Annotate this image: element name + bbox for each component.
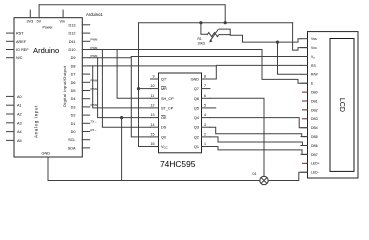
svg-text:LED+: LED+ xyxy=(311,162,320,166)
wire OE to GND rail xyxy=(121,118,123,181)
svg-text:Arduino: Arduino xyxy=(33,46,59,55)
label OE overline xyxy=(161,115,166,117)
svg-text:D12: D12 xyxy=(69,32,76,36)
pin Vss stub xyxy=(301,38,308,40)
svg-text:Vss: Vss xyxy=(311,37,317,41)
pin GND stub xyxy=(47,157,49,181)
pin E stub xyxy=(301,82,308,84)
junction 5V rail corner xyxy=(224,21,227,24)
pin 13 stub xyxy=(151,117,159,119)
wire pot right terminal staircase to LCD Vss xyxy=(220,29,302,42)
lamp D1 cross xyxy=(261,178,267,184)
svg-text:Q7: Q7 xyxy=(194,87,199,91)
pin D13 stub xyxy=(82,24,89,26)
svg-text:5: 5 xyxy=(204,104,206,108)
svg-text:D9: D9 xyxy=(71,56,76,60)
svg-text:Q4: Q4 xyxy=(194,116,199,120)
wire 5V rail top xyxy=(39,5,225,23)
svg-text:10kΩ: 10kΩ xyxy=(198,42,206,46)
svg-text:Q1: Q1 xyxy=(194,145,199,149)
pin A2 stub xyxy=(7,113,15,115)
pin 3 stub xyxy=(202,126,211,128)
svg-text:PWM: PWM xyxy=(91,79,99,83)
label MR overline xyxy=(161,86,166,88)
pin RS stub xyxy=(301,64,308,66)
pin 6 stub xyxy=(202,97,211,99)
pin D5 stub xyxy=(82,90,89,92)
pin A1 stub xyxy=(7,104,15,106)
junction MR xyxy=(137,87,140,90)
pin A5 stub xyxy=(7,139,15,141)
svg-text:Analog Input: Analog Input xyxy=(34,105,39,138)
svg-text:Q5: Q5 xyxy=(194,106,199,110)
pin RW stub xyxy=(301,73,308,75)
svg-text:D3: D3 xyxy=(71,105,76,109)
pin LED- stub xyxy=(301,171,308,173)
LCD U3 body xyxy=(308,32,359,178)
svg-text:D11: D11 xyxy=(69,40,76,44)
svg-text:PWM: PWM xyxy=(91,46,99,50)
wire branch to ST_CP xyxy=(93,66,151,108)
svg-text:D0: D0 xyxy=(71,130,76,134)
labels PWM tags xyxy=(91,38,99,132)
pin SCL stub xyxy=(82,139,89,141)
pin Vin stub xyxy=(62,10,64,18)
pin AREF stub xyxy=(7,40,15,42)
pin 15 stub xyxy=(151,136,159,138)
wire Q2 to DB6 xyxy=(210,137,308,146)
svg-text:14: 14 xyxy=(151,123,155,127)
pin A0 stub xyxy=(7,95,15,97)
svg-text:D6: D6 xyxy=(71,81,76,85)
svg-text:DB3: DB3 xyxy=(311,117,318,121)
svg-text:Q0: Q0 xyxy=(161,135,166,139)
pin DB6 stub xyxy=(301,145,308,147)
resistor R1 wiper arrow xyxy=(210,29,218,41)
svg-text:6: 6 xyxy=(204,94,206,98)
svg-text:13: 13 xyxy=(151,113,155,117)
svg-text:RST: RST xyxy=(16,32,24,36)
svg-text:LCD: LCD xyxy=(338,98,345,112)
pin 5V stub xyxy=(38,5,40,18)
svg-text:CC: CC xyxy=(164,146,168,150)
junction GND Vss xyxy=(276,41,279,44)
pin 14 stub xyxy=(151,126,159,128)
wire Q3 to DB5 xyxy=(210,127,308,136)
svg-text:16: 16 xyxy=(151,142,155,146)
svg-text:A4: A4 xyxy=(17,130,22,134)
junction 5V rail pot xyxy=(199,21,202,24)
svg-text:2: 2 xyxy=(204,133,206,137)
svg-text:1: 1 xyxy=(204,142,206,146)
pin D8 stub xyxy=(82,65,89,67)
pin D1 stub xyxy=(82,122,89,124)
svg-text:7: 7 xyxy=(204,84,206,88)
pin DB4 stub xyxy=(301,127,308,129)
svg-text:Power: Power xyxy=(43,26,54,30)
pin DB0 stub unconnected xyxy=(303,91,308,93)
svg-text:Q2: Q2 xyxy=(194,135,199,139)
pin DB3 stub unconnected xyxy=(303,118,308,120)
pin 9 stub xyxy=(151,78,159,80)
svg-text:RX←: RX← xyxy=(91,128,98,132)
svg-text:DB5: DB5 xyxy=(311,135,318,139)
wire 5V to MR and VCC vertical xyxy=(139,23,151,147)
svg-text:R/W: R/W xyxy=(311,73,318,77)
wire 595 GND pin8 up link and RS line xyxy=(210,65,301,79)
pin D0 stub xyxy=(82,131,89,133)
labels 595 pin numbers xyxy=(151,75,207,147)
pin 2 stub xyxy=(202,136,211,138)
svg-text:PWM: PWM xyxy=(91,54,99,58)
wire D10 to DS xyxy=(90,50,151,128)
pin 5 stub unconnected xyxy=(202,107,216,109)
wire 5V to LCD Vcc xyxy=(293,23,308,50)
wire D9 to Q0 xyxy=(90,57,151,137)
pin 1 stub xyxy=(202,146,211,148)
wire D8 across to RS junction xyxy=(90,65,217,67)
svg-text:A1: A1 xyxy=(17,104,22,108)
svg-text:3: 3 xyxy=(204,123,206,127)
svg-text:RS: RS xyxy=(311,64,316,68)
pin 3V3 stub xyxy=(29,10,31,18)
svg-text:LED-: LED- xyxy=(311,171,319,175)
pin IOREF stub xyxy=(7,49,15,51)
svg-text:PWM: PWM xyxy=(91,38,99,42)
svg-text:Vcc: Vcc xyxy=(311,46,317,50)
pin D2 stub xyxy=(82,114,89,116)
wire MR branch xyxy=(139,88,151,90)
svg-text:Digital Input/Output: Digital Input/Output xyxy=(62,65,67,107)
svg-text:TX→: TX→ xyxy=(91,120,98,124)
svg-text:PWM: PWM xyxy=(91,103,99,107)
wire Vo line xyxy=(131,56,301,58)
wire Q1 to DB7 xyxy=(210,147,308,155)
pin Vo stub xyxy=(301,56,308,58)
pin D3 stub xyxy=(82,106,89,108)
svg-text:11: 11 xyxy=(151,94,155,98)
wire lamp right to LED- xyxy=(268,172,307,180)
svg-text:D13: D13 xyxy=(69,23,76,27)
svg-text:Q3: Q3 xyxy=(194,126,199,130)
pin D4 stub xyxy=(82,98,89,100)
pin 7 stub xyxy=(202,88,211,90)
junction OE GND xyxy=(120,116,123,119)
svg-text:DB7: DB7 xyxy=(311,153,318,157)
resistor R1 zigzag xyxy=(207,33,230,37)
svg-text:SH_CP: SH_CP xyxy=(161,97,174,101)
svg-text:DB0: DB0 xyxy=(311,91,318,95)
svg-text:10: 10 xyxy=(151,84,155,88)
74HC595 U1 body xyxy=(159,73,202,153)
pin A3 stub xyxy=(7,122,15,124)
svg-text:Q7': Q7' xyxy=(161,78,167,82)
svg-text:D4: D4 xyxy=(71,97,76,101)
svg-text:D10: D10 xyxy=(69,48,76,52)
svg-text:D1: D1 xyxy=(253,172,257,176)
wire 5V horizontal rail xyxy=(139,22,293,24)
svg-text:SCL: SCL xyxy=(68,138,75,142)
wire GND vertical to RW xyxy=(278,42,302,74)
svg-text:74HC595: 74HC595 xyxy=(160,159,196,169)
svg-text:D7: D7 xyxy=(71,73,76,77)
LCD screen inner box xyxy=(330,39,354,172)
svg-text:3V3: 3V3 xyxy=(27,20,34,24)
svg-text:D8: D8 xyxy=(71,64,76,68)
labels 74HC595 pins inside xyxy=(161,78,174,150)
pin Vcc stub xyxy=(301,47,308,49)
svg-text:N/C: N/C xyxy=(16,56,23,60)
svg-text:DS: DS xyxy=(161,126,167,130)
pin N/C stub xyxy=(7,57,15,59)
pin DB1 stub unconnected xyxy=(303,100,308,102)
svg-text:12: 12 xyxy=(151,104,155,108)
wire branch to OE xyxy=(98,58,151,118)
svg-text:9: 9 xyxy=(153,75,155,79)
pin DB7 stub xyxy=(301,153,308,155)
svg-text:SDA: SDA xyxy=(68,146,76,150)
labels LCD pins xyxy=(311,37,320,175)
pin SDA stub xyxy=(82,147,89,149)
pin D7 stub xyxy=(82,73,89,75)
svg-text:DB4: DB4 xyxy=(311,126,318,130)
wire branch to E xyxy=(117,50,307,84)
svg-text:IO REF: IO REF xyxy=(16,48,29,52)
pin D6 stub xyxy=(82,81,89,83)
pin 11 stub xyxy=(151,97,159,99)
wire GND rail bottom xyxy=(48,180,260,182)
pin A4 stub xyxy=(7,131,15,133)
pin 12 stub xyxy=(151,107,159,109)
svg-text:A5: A5 xyxy=(17,139,22,143)
svg-text:8: 8 xyxy=(204,75,206,79)
svg-text:A3: A3 xyxy=(17,121,22,125)
svg-text:ST_CP: ST_CP xyxy=(161,106,174,110)
svg-text:MR: MR xyxy=(161,87,167,91)
svg-text:A0: A0 xyxy=(17,95,22,99)
wire Q6 to lamp xyxy=(210,98,264,176)
svg-text:GND: GND xyxy=(42,152,51,156)
pin D9 stub xyxy=(82,57,89,59)
svg-text:DB2: DB2 xyxy=(311,108,318,112)
svg-text:DB6: DB6 xyxy=(311,144,318,148)
svg-text:D5: D5 xyxy=(71,89,76,93)
pin LED+ stub unconnected xyxy=(303,162,308,164)
svg-text:A2: A2 xyxy=(17,113,22,117)
svg-text:D1: D1 xyxy=(71,122,76,126)
svg-text:D2: D2 xyxy=(71,114,76,118)
svg-text:DB1: DB1 xyxy=(311,99,318,103)
pin 4 stub xyxy=(202,117,211,119)
labels Arduino xyxy=(16,20,65,156)
pin 10 stub xyxy=(151,88,159,90)
labels Arduino right pins xyxy=(68,23,76,150)
pin 8 stub xyxy=(202,78,211,80)
resistor R1 wiper arrowhead xyxy=(209,39,212,42)
lamp D1 circle xyxy=(260,176,268,184)
svg-text:Vin: Vin xyxy=(60,20,65,24)
svg-text:PWM: PWM xyxy=(91,87,99,91)
svg-text:Arduino1: Arduino1 xyxy=(86,12,103,17)
svg-text:OE: OE xyxy=(161,116,167,120)
wire pot left terminal from 5V rail xyxy=(201,23,208,35)
pin D11 stub xyxy=(82,40,89,42)
arduino U2 body xyxy=(14,18,82,157)
pin D12 stub xyxy=(82,32,89,34)
pin D10 stub xyxy=(82,49,89,51)
svg-text:GND: GND xyxy=(191,78,200,82)
pin 16 stub xyxy=(151,146,159,148)
wire Q4 to DB4 xyxy=(210,118,308,128)
svg-text:R1: R1 xyxy=(198,37,202,41)
svg-text:4: 4 xyxy=(204,113,206,117)
pin DB2 stub unconnected xyxy=(303,109,308,111)
pin RST stub xyxy=(7,32,15,34)
svg-text:Q6: Q6 xyxy=(194,97,199,101)
svg-text:5V: 5V xyxy=(37,20,42,24)
svg-text:AREF: AREF xyxy=(16,40,27,44)
svg-text:15: 15 xyxy=(151,133,155,137)
pin DB5 stub xyxy=(301,136,308,138)
wire branch to SH_CP xyxy=(102,50,150,99)
